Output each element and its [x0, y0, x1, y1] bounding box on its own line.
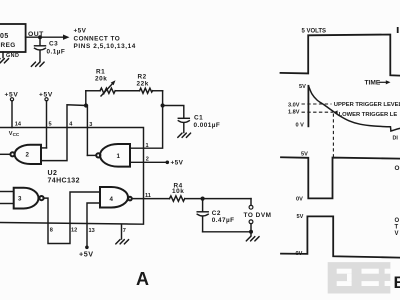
svg-text:3.0V: 3.0V	[288, 102, 300, 108]
svg-text:+5V: +5V	[74, 28, 87, 35]
svg-text:5V: 5V	[297, 214, 304, 220]
svg-text:22k: 22k	[137, 81, 149, 88]
svg-text:0.47µF: 0.47µF	[212, 217, 235, 224]
svg-text:7: 7	[123, 228, 126, 234]
svg-text:R2: R2	[138, 74, 147, 81]
svg-text:CC: CC	[13, 132, 20, 137]
svg-text:5 VOLTS: 5 VOLTS	[302, 29, 327, 35]
svg-text:C3: C3	[49, 40, 58, 47]
svg-text:1.8V: 1.8V	[288, 110, 300, 116]
svg-text:14: 14	[15, 122, 22, 128]
svg-text:+5V: +5V	[39, 92, 53, 99]
svg-text:A: A	[136, 269, 149, 289]
svg-text:GND: GND	[6, 53, 19, 59]
svg-text:TIME: TIME	[365, 80, 381, 87]
svg-text:O: O	[395, 165, 400, 172]
svg-text:13: 13	[89, 228, 95, 234]
svg-text:4: 4	[69, 122, 73, 128]
svg-text:U2: U2	[48, 170, 58, 177]
svg-text:+5V: +5V	[171, 160, 184, 167]
svg-text:C1: C1	[194, 115, 203, 122]
svg-text:11: 11	[145, 193, 151, 199]
svg-text:T: T	[395, 225, 399, 231]
svg-text:1: 1	[146, 143, 149, 149]
svg-text:PINS 2,5,10,13,14: PINS 2,5,10,13,14	[74, 43, 136, 50]
svg-text:UPPER TRIGGER LEVEL: UPPER TRIGGER LEVEL	[334, 102, 400, 108]
svg-text:0V: 0V	[296, 196, 303, 202]
svg-text:V: V	[395, 231, 399, 237]
svg-text:0V: 0V	[296, 251, 303, 257]
svg-text:0 V: 0 V	[296, 123, 305, 129]
svg-text:5V: 5V	[299, 84, 306, 90]
svg-text:+5V: +5V	[79, 249, 94, 258]
svg-text:2: 2	[146, 156, 149, 162]
svg-text:4: 4	[110, 196, 114, 203]
svg-text:+5V: +5V	[5, 92, 19, 99]
svg-text:TO DVM: TO DVM	[244, 212, 272, 219]
svg-text:5V: 5V	[301, 151, 308, 157]
svg-text:R1: R1	[96, 69, 105, 76]
svg-text:0.1µF: 0.1µF	[47, 49, 66, 56]
svg-text:3: 3	[89, 122, 92, 128]
svg-text:1: 1	[117, 153, 121, 160]
svg-text:O: O	[395, 218, 400, 224]
svg-text:B: B	[394, 273, 400, 292]
svg-text:12: 12	[71, 227, 77, 233]
svg-text:5: 5	[49, 121, 52, 127]
svg-text:20k: 20k	[95, 76, 107, 83]
svg-text:C2: C2	[212, 210, 221, 217]
svg-text:OUT: OUT	[28, 31, 44, 38]
svg-text:3: 3	[18, 196, 22, 203]
svg-text:LOWER TRIGGER LE: LOWER TRIGGER LE	[339, 112, 398, 118]
svg-text:REG: REG	[1, 42, 16, 49]
svg-text:10k: 10k	[172, 188, 184, 195]
svg-text:2: 2	[26, 152, 30, 159]
svg-text:CONNECT TO: CONNECT TO	[74, 36, 121, 43]
svg-text:DI: DI	[393, 136, 399, 142]
svg-text:05: 05	[0, 33, 9, 40]
svg-text:0.001µF: 0.001µF	[194, 122, 221, 129]
svg-text:74HC132: 74HC132	[48, 178, 80, 185]
svg-text:8: 8	[50, 227, 53, 233]
